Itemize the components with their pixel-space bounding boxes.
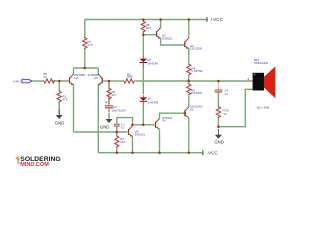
node bias bottom right: [142, 124, 145, 127]
resistor R9: [107, 87, 117, 100]
wire R8 bottom to U3 base node: [142, 33, 144, 35]
svg-text:GND: GND: [214, 139, 224, 144]
wire box right vertical to U5 collector: [97, 68, 99, 75]
node R7 bottom: [84, 67, 87, 70]
soldering mind logo: [15, 155, 61, 168]
ground GND2: [100, 113, 113, 129]
transistor U4: [156, 116, 173, 129]
node rail U3: [159, 18, 162, 21]
node bias bottom left: [131, 124, 134, 127]
svg-text:100K: 100K: [126, 75, 133, 79]
wire C2 to ground: [108, 108, 110, 112]
node U1 base: [184, 112, 187, 115]
wire U6 emitter down: [73, 84, 75, 132]
node U3 base: [142, 34, 145, 37]
wire D1 to bias bottom node: [142, 106, 144, 125]
transistor U5: [88, 73, 102, 85]
node C1 R3: [116, 131, 119, 134]
wire feedback node to R9: [108, 81, 110, 88]
wire R5 to U1 collector: [188, 96, 190, 107]
wire R3 to bottom rail: [116, 147, 118, 153]
svg-text:-VCC: -VCC: [207, 150, 219, 155]
wire feedback node to R2: [109, 80, 123, 82]
node zobel top: [217, 80, 220, 83]
wire cap C1 to R3 node: [116, 127, 118, 136]
svg-text:U5: U5: [94, 76, 98, 80]
resistor R6: [43, 72, 56, 83]
svg-text:10uF/100V: 10uF/100V: [111, 108, 126, 112]
resistor R2: [123, 72, 136, 83]
wire R2 to output node: [136, 80, 189, 82]
wire R9 to C2: [108, 98, 110, 105]
wire R4 to output node: [188, 76, 190, 81]
wire output to zobel node: [189, 80, 219, 82]
capacitor C2: [105, 82, 126, 112]
svg-text:+VCC: +VCC: [211, 17, 224, 22]
svg-text:SPEAKER: SPEAKER: [254, 61, 269, 65]
wire cap C1 top lead: [116, 118, 118, 124]
svg-text:0.33/5W: 0.33/5W: [191, 69, 202, 73]
svg-text:4K7: 4K7: [120, 140, 126, 144]
wire U5 emitter down to bottom rail: [97, 84, 99, 152]
wire zobel node to speaker: [218, 80, 249, 82]
wire output node to R5: [188, 81, 190, 84]
capacitor C4: [215, 82, 229, 96]
transistor U8: [129, 126, 146, 137]
wire U3 collector to rail: [160, 20, 162, 29]
node output: [188, 80, 191, 83]
wire U1 emitter to bottom rail: [188, 118, 190, 153]
svg-text:2N5551: 2N5551: [162, 36, 173, 40]
svg-text:U4: U4: [162, 119, 166, 123]
ground GND3: [214, 129, 224, 145]
svg-text:2SC5200: 2SC5200: [190, 47, 203, 51]
wire U3 emitter down: [161, 38, 185, 45]
resistor R1: [57, 90, 68, 103]
svg-text:INPUT: INPUT: [14, 80, 23, 84]
node rail U8: [131, 151, 134, 154]
wire U6 emitter to U8 base: [74, 131, 128, 133]
wire U5 base to feedback node: [102, 80, 109, 82]
wire R10 to ground node: [217, 118, 219, 127]
wire bottom rail -VCC: [98, 152, 202, 154]
svg-text:1K: 1K: [43, 75, 47, 79]
capacitor C1: [114, 122, 125, 129]
node rail R8: [142, 18, 145, 21]
svg-text:10: 10: [223, 112, 227, 116]
wire between D2 and D1: [142, 67, 144, 95]
resistor R4: [187, 63, 203, 75]
port INPUT: [14, 79, 32, 83]
wire box left vertical to U6 collector: [73, 68, 75, 75]
svg-text:1N4148: 1N4148: [147, 61, 158, 65]
speaker BP1: [248, 58, 276, 109]
diode D1: [140, 95, 159, 105]
svg-text:0.33/5W: 0.33/5W: [191, 91, 202, 95]
wire U4 collector to U1 base: [160, 113, 185, 118]
wire U8 collector up: [132, 125, 134, 126]
transistor U1: [185, 105, 203, 118]
wire diode chain top: [142, 35, 144, 57]
power pin -VCC: [202, 150, 218, 155]
resistor R8: [141, 20, 151, 33]
ground GND1: [55, 109, 65, 125]
transistor U6: [70, 73, 86, 85]
svg-text:4K7: 4K7: [111, 93, 117, 97]
node input bias: [58, 80, 61, 83]
node rail R3: [116, 151, 119, 154]
diode D2: [140, 56, 159, 66]
node rail U4: [158, 151, 161, 154]
resistor R10: [216, 106, 229, 119]
svg-text:GND: GND: [100, 124, 110, 129]
wire U4 emitter to bottom rail: [159, 129, 161, 152]
svg-text:47K: 47K: [62, 97, 67, 101]
svg-text:U6: U6: [74, 76, 78, 80]
resistor R3: [115, 135, 126, 148]
wire ground node to speaker return: [218, 89, 251, 126]
svg-text:8Ω x 18W: 8Ω x 18W: [257, 106, 270, 110]
wire U8 emitter to bottom rail: [132, 136, 134, 152]
node zobel bottom: [217, 125, 220, 128]
node rail U1: [188, 151, 191, 154]
wire left vertical from rail to R7: [84, 20, 86, 69]
svg-text:MIND.COM: MIND.COM: [20, 162, 48, 168]
transistor U2: [185, 38, 203, 51]
wire input to R6: [32, 80, 44, 82]
svg-text:1u: 1u: [121, 126, 125, 130]
wire U2 collector to rail: [188, 20, 190, 38]
transistor U3: [157, 28, 173, 41]
svg-text:1u: 1u: [224, 92, 228, 96]
wire node to R1: [58, 81, 60, 91]
wire U3 base: [143, 34, 156, 36]
power pin +VCC: [206, 17, 223, 22]
wire U2 emitter to R4: [188, 49, 190, 64]
svg-text:U1: U1: [190, 108, 194, 112]
node rail U2: [188, 18, 191, 21]
wire R6 to U6 base: [52, 80, 69, 82]
resistor R7: [83, 37, 93, 50]
svg-text:47K: 47K: [87, 43, 92, 47]
resistor R5: [187, 83, 203, 96]
wire top rail +VCC: [85, 19, 207, 21]
svg-text:GND: GND: [55, 120, 65, 125]
svg-text:2N5551: 2N5551: [135, 132, 146, 136]
svg-text:1N4148: 1N4148: [148, 100, 159, 104]
wire bias node to U4 base: [132, 124, 154, 126]
wire collector box horizontal: [74, 67, 99, 69]
wire feedback cap top jog: [117, 118, 133, 125]
node feedback: [108, 80, 111, 83]
wire R1 to ground: [58, 103, 60, 115]
wire C4 to R10: [217, 92, 219, 106]
svg-text:2K2: 2K2: [146, 26, 152, 30]
